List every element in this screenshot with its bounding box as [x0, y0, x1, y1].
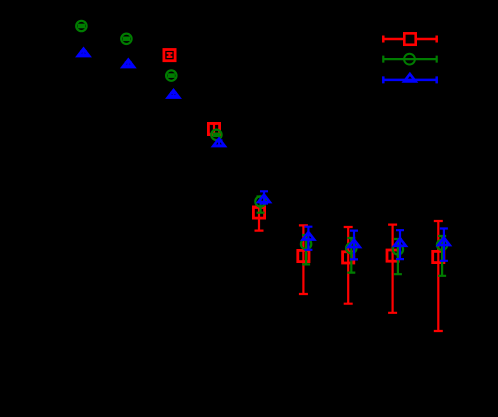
red series square marker point 6: [387, 250, 398, 261]
green series error bar point 3: [168, 73, 175, 78]
green series circle marker point 1: [76, 21, 86, 31]
blue series error bar point 2: [125, 63, 132, 66]
green series error bar point 6: [302, 235, 310, 264]
red series square marker point 4: [298, 250, 309, 261]
blue series triangle marker point 4: [213, 139, 225, 147]
green series circle marker point 3: [166, 70, 176, 80]
blue series triangle marker point 7: [348, 240, 360, 248]
red series square marker point 2: [208, 123, 219, 134]
green series error bar point 4: [213, 133, 220, 138]
green series circle marker point 6: [301, 239, 311, 249]
blue series triangle marker point 6: [303, 232, 315, 240]
red series error bar point 1: [167, 53, 173, 57]
legend blue triangle marker: [404, 74, 416, 82]
green series error bar point 7: [347, 238, 355, 273]
legend green circle marker: [404, 54, 415, 65]
legend green entry line with end caps: [383, 56, 436, 63]
red series square marker point 3: [253, 207, 264, 218]
green series circle marker point 8: [393, 244, 403, 254]
blue series triangle marker point 5: [258, 195, 270, 203]
green series error bar point 8: [394, 239, 402, 274]
green series error bar point 2: [123, 37, 130, 42]
blue series triangle marker point 1: [78, 49, 90, 57]
blue series triangle marker point 3: [168, 90, 180, 98]
green series error bar point 5: [257, 197, 265, 213]
blue series triangle marker point 2: [123, 60, 135, 68]
green series circle marker point 7: [346, 243, 356, 253]
blue series error bar point 6: [304, 227, 312, 250]
red series error bar point 4: [299, 225, 308, 294]
legend red square marker (black filled): [404, 33, 415, 44]
blue series error bar point 5: [260, 191, 268, 203]
red series error bar point 3: [255, 208, 264, 231]
blue series error bar point 8: [396, 230, 404, 259]
blue series triangle marker point 8: [394, 238, 406, 246]
blue series error bar point 4: [216, 141, 223, 146]
blue series error bar point 1: [80, 52, 87, 55]
green series circle marker point 4: [211, 130, 221, 140]
legend red entry line with end caps: [383, 36, 436, 43]
red series square marker point 1: [164, 50, 175, 61]
red series error bar point 6: [388, 225, 397, 313]
blue series triangle marker point 9: [438, 238, 450, 246]
blue series error bar point 3: [170, 93, 177, 96]
red series error bar point 7: [434, 221, 443, 331]
green series circle marker point 9: [437, 240, 447, 250]
red series square marker point 7: [433, 251, 444, 262]
red series square marker point 5: [343, 252, 354, 263]
legend blue entry line with end caps: [383, 76, 436, 83]
red series error bar point 2: [211, 124, 218, 135]
green series error bar point 1: [78, 24, 85, 29]
green series error bar point 9: [438, 236, 446, 276]
red series error bar point 5: [344, 227, 353, 304]
blue series error bar point 9: [440, 229, 448, 261]
green series circle marker point 2: [121, 34, 131, 44]
blue series error bar point 7: [350, 231, 358, 260]
green series circle marker point 5: [255, 196, 265, 206]
